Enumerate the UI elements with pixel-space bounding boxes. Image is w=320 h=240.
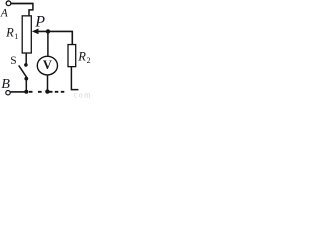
dashed bus wire — [29, 91, 65, 93]
svg-text:2: 2 — [87, 56, 91, 65]
wire jog down to R1 top — [29, 3, 33, 16]
svg-text:B: B — [1, 77, 10, 92]
switch bottom lead — [25, 79, 27, 92]
svg-text:1: 1 — [14, 32, 18, 41]
voltmeter U1 — [37, 56, 57, 75]
wiper arrowhead — [32, 29, 39, 35]
resistor R1 — [22, 16, 31, 53]
voltmeter top lead — [47, 31, 49, 57]
voltmeter bottom lead — [47, 75, 49, 92]
svg-text:R: R — [77, 50, 86, 64]
R2 bottom lead and corner — [71, 67, 78, 90]
terminal B — [6, 91, 10, 95]
junction dot at bottom bus — [45, 89, 49, 93]
switch S top contact — [24, 63, 28, 67]
R1 bottom lead — [25, 53, 27, 63]
svg-text:A: A — [0, 8, 9, 20]
wire B to switch junction — [11, 91, 27, 93]
junction dot on wiper line — [46, 29, 50, 33]
svg-text:S: S — [10, 55, 16, 67]
switch bottom contact — [24, 77, 28, 81]
terminal A — [6, 1, 11, 6]
resistor R2 — [68, 45, 76, 67]
wire A to corner — [11, 3, 33, 5]
svg-text:R: R — [5, 26, 14, 40]
svg-text:P: P — [34, 13, 45, 30]
svg-text:V: V — [43, 58, 52, 72]
switch blade — [19, 65, 28, 78]
junction dot at switch/bus — [24, 90, 28, 94]
svg-text:com: com — [74, 90, 92, 98]
wiper arrow line P — [37, 31, 72, 44]
